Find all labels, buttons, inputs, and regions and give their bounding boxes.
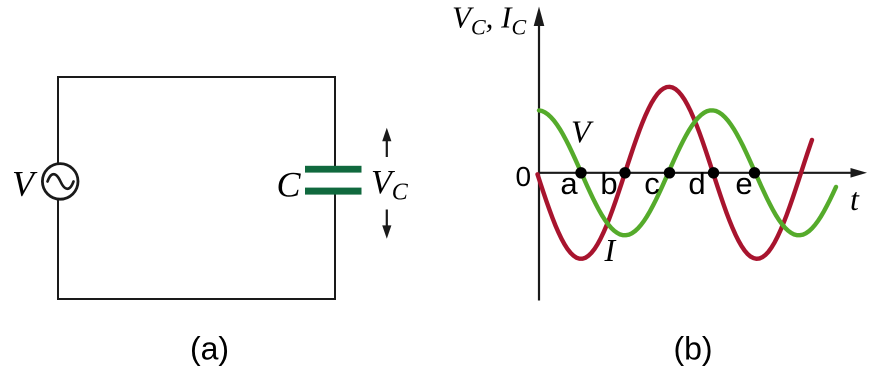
svg-text:(b): (b) — [673, 331, 712, 367]
svg-text:c: c — [644, 166, 660, 201]
curve I (red) — [538, 87, 813, 259]
svg-text:I: I — [604, 232, 617, 268]
svg-text:b: b — [600, 166, 617, 201]
x-axis (t) — [539, 172, 853, 174]
svg-text:t: t — [850, 181, 860, 217]
node e dot — [749, 167, 760, 178]
svg-text:0: 0 — [516, 161, 532, 192]
node b dot — [619, 167, 630, 178]
wire loop (circuit a) — [58, 77, 335, 299]
curve V (green) — [539, 110, 836, 235]
capacitor C gap (wire break) — [328, 171, 342, 189]
node a dot — [575, 167, 586, 178]
svg-text:VC, IC: VC, IC — [452, 0, 526, 40]
svg-text:V: V — [12, 163, 38, 203]
svg-text:V: V — [571, 114, 594, 150]
ac source sine symbol — [48, 174, 74, 189]
svg-text:VC: VC — [371, 164, 409, 206]
capacitor C top plate — [305, 166, 362, 173]
svg-text:(a): (a) — [190, 331, 229, 367]
ac source V circle — [42, 164, 78, 200]
arrow up (VC polarity) — [386, 139, 388, 157]
node d dot — [708, 167, 719, 178]
capacitor C bottom plate — [305, 188, 362, 195]
node c dot — [664, 167, 675, 178]
svg-text:e: e — [735, 166, 752, 201]
svg-text:C: C — [277, 165, 302, 205]
arrow down (VC polarity) — [386, 210, 388, 228]
svg-text:a: a — [560, 166, 578, 201]
y-axis (VC, IC) — [538, 22, 540, 301]
svg-text:d: d — [688, 166, 705, 201]
